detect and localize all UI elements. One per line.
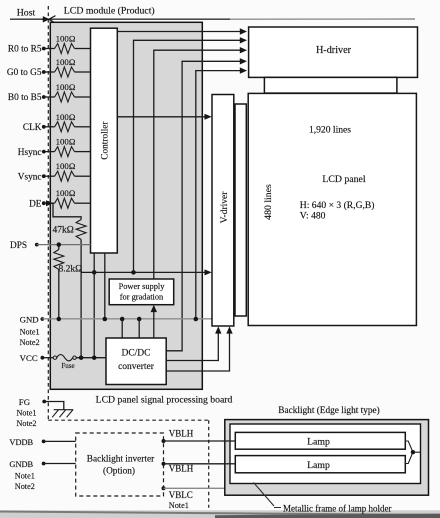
wire DE input to resistor <box>44 202 55 204</box>
svg-text:Lamp: Lamp <box>307 460 330 471</box>
wire bus line 4 DC/DC to H-driver <box>166 58 247 351</box>
svg-text:CLK: CLK <box>23 123 42 133</box>
wire resistor to controller (Hsync) <box>75 151 91 153</box>
metallic frame inner opening <box>230 424 421 484</box>
svg-text:B0 to B5: B0 to B5 <box>8 93 42 103</box>
svg-text:LCD panel: LCD panel <box>322 174 366 185</box>
wire VCC rail up to V-driver feed line <box>81 271 210 273</box>
resistor 100ohm (G0 to G5 line) <box>55 57 76 77</box>
H-driver block <box>249 27 418 77</box>
wire bus line 2 (riser x133.5) to H-driver <box>134 37 248 272</box>
wire resistor to controller (Vsync) <box>75 175 91 177</box>
wire VBLH2 to lamp 2 <box>164 463 236 465</box>
svg-text:Backlight (Edge light type): Backlight (Edge light type) <box>278 405 379 416</box>
wire B0 to B5 input to resistor <box>44 96 55 98</box>
svg-text:480 lines: 480 lines <box>263 184 274 220</box>
wire resistor to controller (CLK) <box>75 126 91 128</box>
node CLK <box>23 123 46 133</box>
lamp 2 <box>235 456 405 473</box>
node Hsync <box>18 148 46 158</box>
svg-text:Metallic frame of lamp holder: Metallic frame of lamp holder <box>283 504 391 514</box>
junction controller bottom stub on 272 line <box>92 270 97 275</box>
DC/DC converter block <box>106 338 166 385</box>
LCD panel signal processing board (shaded area) <box>50 22 202 389</box>
wire VBLC to metallic frame <box>164 487 225 489</box>
wire DC/DC up-arrow into power supply <box>151 305 157 338</box>
node GNDB <box>9 460 45 491</box>
svg-text:Hsync: Hsync <box>18 148 42 158</box>
wire DC/DC stub2 to GND <box>138 319 140 338</box>
wire: header rule under Host / LCD module labels <box>10 18 415 20</box>
metallic frame of lamp holder (outer) <box>225 420 429 496</box>
svg-text:100Ω: 100Ω <box>56 57 76 67</box>
svg-text:(Option): (Option) <box>103 465 135 476</box>
svg-text:VCC: VCC <box>20 353 38 363</box>
svg-text:for gradation: for gradation <box>120 293 164 302</box>
wire resistor to controller (DE) <box>75 202 91 204</box>
junction DPS / 8.2k divider <box>57 242 62 247</box>
wire DC/DC output to V-driver bottom arrow 2 <box>166 326 233 371</box>
V-driver to panel connector <box>235 104 246 316</box>
lamp 1 <box>235 432 405 449</box>
node B0 to B5 <box>8 93 46 103</box>
node VBLH (lamp 2) <box>162 462 194 474</box>
node DE <box>29 199 46 209</box>
wire Hsync input to resistor <box>44 151 55 153</box>
node G0 to G5 <box>7 68 46 78</box>
wire fuse to DC/DC converter <box>76 357 106 359</box>
ground (chassis) symbol for FG <box>52 410 73 418</box>
junction riser2 on 272 line <box>131 270 136 275</box>
svg-text:Note2: Note2 <box>20 338 40 347</box>
svg-text:V-driver: V-driver <box>220 191 230 224</box>
node VDDB <box>9 438 45 447</box>
svg-text:Vsync: Vsync <box>18 172 42 182</box>
wire FG to chassis ground <box>44 402 64 410</box>
svg-text:LCD panel signal processing bo: LCD panel signal processing board <box>96 394 233 405</box>
wire GND rail <box>42 318 212 320</box>
wire lamp commons to frame <box>405 441 420 464</box>
svg-text:Note1: Note1 <box>17 408 37 417</box>
node R0 to R5 <box>8 45 46 55</box>
svg-text:Fuse: Fuse <box>61 362 74 370</box>
node DPS <box>10 241 39 251</box>
wire GNDB to backlight inverter <box>44 463 76 465</box>
scan artifact: bottom page edge band <box>0 510 440 518</box>
wire G0 to G5 input to resistor <box>44 71 55 73</box>
svg-text:47kΩ: 47kΩ <box>53 225 74 235</box>
node VBLH (lamp 1) <box>162 429 194 443</box>
svg-text:DC/DC: DC/DC <box>121 349 150 359</box>
svg-text:Power supply: Power supply <box>119 282 166 291</box>
svg-text:100Ω: 100Ω <box>56 82 76 92</box>
svg-text:GNDB: GNDB <box>9 460 33 469</box>
svg-text:Note2: Note2 <box>15 482 35 491</box>
wire VCC to fuse <box>42 357 53 359</box>
svg-text:GND: GND <box>20 314 39 324</box>
wire leader to metallic frame label <box>254 483 282 508</box>
wire CLK input to resistor <box>44 126 55 128</box>
resistor 100ohm (B0 to B5 line) <box>55 82 76 102</box>
svg-text:Host: Host <box>17 7 36 18</box>
svg-text:100Ω: 100Ω <box>56 137 76 147</box>
svg-text:DE: DE <box>29 199 42 209</box>
resistor 100ohm (CLK line) <box>55 112 76 132</box>
svg-text:G0 to G5: G0 to G5 <box>7 68 42 78</box>
svg-text:Note1: Note1 <box>169 501 189 510</box>
svg-text:Backlight inverter: Backlight inverter <box>87 454 155 464</box>
node VCC <box>20 353 45 363</box>
wire Vsync input to resistor <box>44 175 55 177</box>
power supply for gradation block <box>109 279 174 305</box>
wire 8.2k to GND rail <box>58 269 60 319</box>
svg-text:VBLC: VBLC <box>169 490 193 500</box>
junction riser5 to GND <box>194 317 199 322</box>
wire arrowhead into V-driver (supply line) <box>205 269 212 275</box>
wire resistor to controller (G0 to G5) <box>75 71 91 73</box>
wire 47k down through DPS crossing to VCC rail <box>80 239 82 357</box>
wire bus line 1 controller to H-driver <box>117 28 247 34</box>
svg-text:Note1: Note1 <box>20 327 40 336</box>
LCD panel block <box>248 93 416 325</box>
svg-text:VBLH: VBLH <box>169 464 194 474</box>
junction controller VCC stub <box>92 355 97 360</box>
wire VBLH1 crossing frame into lamp 1 <box>224 440 236 442</box>
svg-text:DPS: DPS <box>10 241 27 251</box>
node Vsync <box>18 172 46 182</box>
svg-text:R0 to R5: R0 to R5 <box>8 45 42 55</box>
wire DE direction arrow <box>46 200 53 206</box>
svg-text:100Ω: 100Ω <box>56 188 76 198</box>
wire controller bottom stub down to VCC <box>93 253 95 358</box>
wire DC/DC stub1 to GND <box>121 319 123 338</box>
wire resistor to controller (B0 to B5) <box>75 96 91 98</box>
wire DC/DC output to V-driver bottom arrow 1 <box>166 326 221 360</box>
junction 8.2k to GND <box>57 317 62 322</box>
resistor 100ohm (DE line) <box>55 188 76 208</box>
junction VCC riser <box>79 355 84 360</box>
svg-text:8.2kΩ: 8.2kΩ <box>59 265 83 275</box>
svg-text:100Ω: 100Ω <box>56 161 76 171</box>
svg-text:LCD module (Product): LCD module (Product) <box>64 6 155 17</box>
wire: module boundary dashed line (left vertical, bottom jog to backlight) <box>48 6 208 508</box>
resistor 100ohm (R0 to R5 line) <box>55 34 76 54</box>
wire controller GND stub <box>104 253 106 319</box>
wire controller to V-driver signal line with arrowhead <box>117 114 211 120</box>
wire R0 to R5 input to resistor <box>44 48 55 50</box>
svg-text:FG: FG <box>19 397 31 407</box>
svg-text:Lamp: Lamp <box>307 436 330 447</box>
resistor 8.2kohm <box>54 250 82 275</box>
svg-text:H-driver: H-driver <box>316 45 352 56</box>
svg-text:100Ω: 100Ω <box>56 34 76 44</box>
wire VBLH2 crossing frame into lamp 2 <box>224 463 236 465</box>
resistor 100ohm (Vsync line) <box>55 161 76 181</box>
wire DPS to controller <box>37 244 91 246</box>
wire bus line 5 GND to H-driver <box>196 67 247 319</box>
svg-text:Controller: Controller <box>100 121 110 160</box>
op-amp/controller U1: Controller block <box>91 28 118 253</box>
wire: interface arrow at host/module boundary <box>42 16 56 23</box>
wire VBLH1 to lamp 1 <box>164 440 236 442</box>
H-driver to panel connector <box>264 77 397 93</box>
svg-text:V: 480: V: 480 <box>300 210 326 221</box>
wire resistor to controller (R0 to R5) <box>75 48 91 50</box>
fuse F1 <box>53 355 76 371</box>
junction controller stub to GND <box>103 317 108 322</box>
svg-text:1,920 lines: 1,920 lines <box>309 125 351 136</box>
backlight inverter (Option) block <box>76 433 164 496</box>
svg-text:converter: converter <box>118 362 155 372</box>
wire VDDB to backlight inverter <box>44 440 76 442</box>
wire DE tap down to 47k resistor <box>53 203 81 219</box>
node VBLC <box>162 486 193 510</box>
resistor 100ohm (Hsync line) <box>55 137 76 157</box>
node FG <box>17 397 47 428</box>
svg-text:Note2: Note2 <box>17 419 37 428</box>
resistor 47kohm <box>53 220 87 240</box>
junction DC/DC stub2 to GND <box>137 317 142 322</box>
svg-text:VBLH: VBLH <box>169 429 194 439</box>
wire bus line 3 power-supply to H-driver <box>154 47 247 279</box>
svg-text:100Ω: 100Ω <box>56 112 76 122</box>
wire DPS junction down <box>58 245 60 250</box>
svg-text:Note1: Note1 <box>15 472 35 481</box>
V-driver block <box>212 95 234 327</box>
junction DC/DC stub1 to GND <box>120 317 125 322</box>
node GND <box>20 314 45 347</box>
svg-text:VDDB: VDDB <box>9 438 33 447</box>
